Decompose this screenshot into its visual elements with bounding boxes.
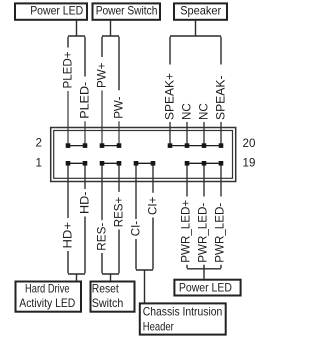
wire RES+ lead (pin 7)	[118, 163, 120, 192]
svg-text:PLED+: PLED+	[62, 51, 75, 88]
box Chassis Intrusion Header	[140, 303, 226, 334]
pin 20	[219, 143, 224, 148]
wire HD- lead (pin 3)	[84, 163, 86, 189]
pin 14	[168, 143, 173, 148]
box Power Switch	[93, 3, 161, 19]
wire Hard Drive Activity LED fork	[68, 217, 85, 281]
pin 7	[117, 161, 122, 166]
box Power LED (top)	[15, 3, 87, 19]
svg-text:Power LED: Power LED	[30, 5, 83, 18]
wire pin5-pin7 plug bar	[102, 162, 119, 164]
wire Power Switch fork	[102, 21, 119, 91]
wire Reset Switch fork	[102, 230, 119, 281]
pin 16	[185, 143, 190, 148]
svg-text:Speaker: Speaker	[180, 5, 221, 18]
box Speaker	[174, 3, 227, 19]
wire power-led plug bar pins 15-19	[187, 162, 221, 164]
svg-text:PWR_LED+: PWR_LED+	[180, 200, 193, 263]
wire SPEAK- lead below label (pin 20)	[220, 122, 222, 144]
wire Power LED (bottom) fork	[187, 265, 221, 279]
pin 3	[83, 161, 88, 166]
svg-text:RES-: RES-	[96, 223, 109, 251]
svg-text:RES+: RES+	[113, 196, 126, 227]
pin 1	[66, 161, 71, 166]
box Power LED (bottom)	[174, 280, 240, 296]
pin 5	[100, 161, 105, 166]
wire speaker plug bar pins 14-20	[170, 145, 221, 147]
box Reset Switch	[91, 282, 135, 312]
svg-text:Switch: Switch	[92, 297, 124, 310]
svg-text:PWR_LED-: PWR_LED-	[197, 203, 210, 263]
wire NC lead (pin 16)	[186, 122, 188, 144]
pin 15	[185, 161, 190, 166]
wire PLED- lead below label (pin 4)	[84, 121, 86, 143]
svg-text:Power LED: Power LED	[179, 282, 232, 295]
pin 19	[219, 161, 224, 166]
wire RES- lead (pin 5)	[101, 163, 103, 220]
wire PW- lead below label (pin 8)	[118, 121, 120, 143]
pin 6	[100, 143, 105, 148]
pin 2	[66, 143, 71, 148]
svg-text:PWR_LED-: PWR_LED-	[214, 203, 227, 263]
svg-text:NC: NC	[181, 103, 194, 120]
wire PWR_LED+ lead (pin 15)	[186, 163, 188, 197]
svg-text:SPEAK+: SPEAK+	[164, 73, 177, 120]
pin 8	[117, 143, 122, 148]
svg-text:2: 2	[36, 137, 42, 150]
svg-text:1: 1	[36, 156, 42, 169]
svg-text:HD+: HD+	[62, 222, 75, 249]
svg-text:20: 20	[243, 137, 256, 150]
svg-text:PW+: PW+	[96, 62, 109, 88]
svg-text:CI-: CI-	[130, 221, 143, 237]
wire pin1-pin3 plug bar	[68, 162, 85, 164]
connector F_PANEL block inner outline	[54, 131, 233, 179]
svg-text:SPEAK-: SPEAK-	[215, 75, 228, 120]
pin 11	[151, 161, 156, 166]
wire NC lead (pin 18)	[203, 122, 205, 144]
wire Power LED fork	[68, 21, 85, 77]
wire pin9-pin11 plug bar	[136, 162, 153, 164]
svg-text:Reset: Reset	[92, 282, 120, 295]
svg-text:Header: Header	[143, 321, 174, 334]
svg-text:Power Switch: Power Switch	[96, 5, 158, 18]
wire HD+ lead (pin 1)	[67, 163, 69, 218]
svg-text:PW-: PW-	[113, 96, 126, 118]
box Hard Drive Activity LED	[16, 282, 82, 312]
wire PLED+ lead below label (pin 2)	[67, 91, 69, 144]
svg-text:HD-: HD-	[79, 191, 92, 214]
svg-text:PLED-: PLED-	[79, 82, 92, 119]
connector F_PANEL block outer outline	[51, 128, 236, 182]
pin 4	[83, 143, 88, 148]
svg-text:Hard Drive: Hard Drive	[25, 282, 70, 295]
svg-text:Activity LED: Activity LED	[19, 297, 75, 310]
wire PW+ lead below label (pin 6)	[101, 91, 103, 144]
wire Speaker fork	[170, 21, 221, 65]
svg-text:CI+: CI+	[147, 196, 160, 215]
wire PWR_LED- lead (pin 19)	[220, 163, 222, 197]
wire SPEAK+ lead below label (pin 14)	[169, 122, 171, 144]
wire pin2-pin4 plug bar	[68, 145, 85, 147]
wire CI- lead (pin 9)	[135, 163, 137, 219]
svg-text:NC: NC	[198, 103, 211, 120]
wire PWR_LED- lead (pin 17)	[203, 163, 205, 197]
pin 17	[202, 161, 207, 166]
wire Chassis Intrusion fork	[136, 218, 153, 303]
svg-text:Chassis Intrusion: Chassis Intrusion	[143, 306, 223, 319]
wire CI+ lead (pin 11)	[152, 163, 154, 193]
svg-text:19: 19	[243, 156, 256, 169]
pin 18	[202, 143, 207, 148]
wire pin6-pin8 plug bar	[102, 145, 119, 147]
pin 9	[134, 161, 139, 166]
